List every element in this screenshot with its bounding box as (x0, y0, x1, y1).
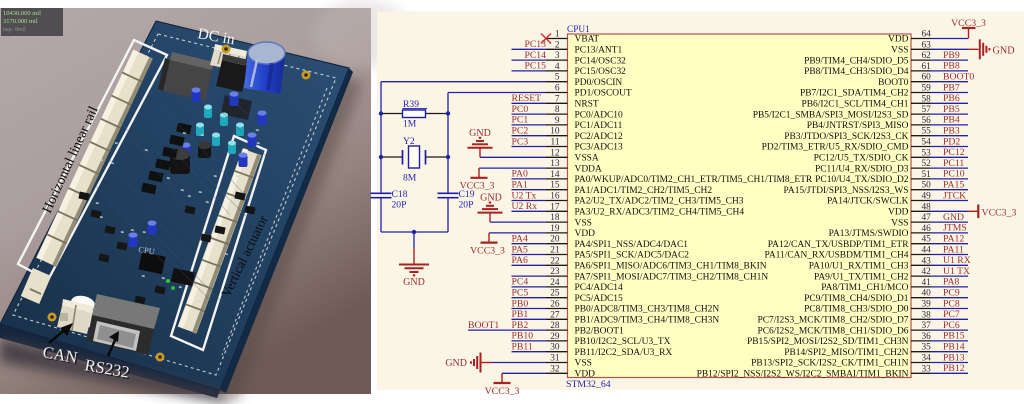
svg-text:16: 16 (550, 192, 560, 202)
svg-text:PA8: PA8 (943, 277, 959, 288)
pin 23 PA7/SPI1_MOSI/ADC7/TIM3_CH2/TIM8_CH1N (left) (546, 267, 768, 282)
power VCC3_3 (VDDA pin13) (460, 168, 495, 192)
right terminal block strip (187, 152, 252, 330)
pin 4 PC15/OSC32 (left) (546, 62, 626, 77)
svg-text:BOOT1: BOOT1 (468, 320, 499, 331)
svg-text:20: 20 (550, 235, 560, 245)
svg-text:PC7/I2S3_MCK/TIM8_CH2/SDIO_D7: PC7/I2S3_MCK/TIM8_CH2/SDIO_D7 (757, 316, 908, 326)
svg-text:PB8/TIM4_CH3/SDIO_D4: PB8/TIM4_CH3/SDIO_D4 (804, 67, 909, 77)
svg-text:U1 TX: U1 TX (943, 266, 970, 277)
crystal Y2 (381, 146, 448, 168)
svg-text:45: 45 (922, 235, 932, 245)
svg-text:PB4: PB4 (943, 115, 960, 126)
wire pin12 VSSA (480, 156, 546, 158)
svg-text:57: 57 (922, 105, 932, 115)
pointer arrows (49, 323, 73, 343)
svg-text:STM32_64: STM32_64 (566, 379, 611, 390)
pin 7 NRST (left) (546, 94, 599, 109)
wire pin 43 (931, 264, 969, 266)
svg-text:PB9/TIM4_CH4/SDIO_D5: PB9/TIM4_CH4/SDIO_D5 (804, 56, 909, 66)
pin 36 PB15/SPI2_MOSI/I2S2_SD/TIM1_CH3N (right) (747, 332, 931, 347)
svg-text:3: 3 (555, 51, 560, 61)
wire net BOOT1 (468, 329, 546, 331)
wire net PC1 (512, 124, 547, 126)
pin 6 PD1/OSCOUT (left) (546, 84, 632, 99)
svg-text:PA8/TIM1_CH1/MCO: PA8/TIM1_CH1/MCO (821, 283, 908, 293)
left connector frame (silkscreen) (18, 40, 167, 280)
wire pin 47 (931, 221, 969, 223)
svg-text:PD2: PD2 (943, 136, 960, 147)
pin 20 PA4/SPI1_NSS/ADC4/DAC1 (left) (546, 235, 688, 250)
svg-text:PA3/U2_RX/ADC3/TIM2_CH4/TIM5_C: PA3/U2_RX/ADC3/TIM2_CH4/TIM5_CH4 (575, 208, 745, 218)
svg-text:44: 44 (922, 246, 932, 256)
svg-text:PA12/CAN_TX/USBDP/TIM1_ETR: PA12/CAN_TX/USBDP/TIM1_ETR (768, 240, 909, 250)
svg-text:58: 58 (922, 94, 932, 104)
svg-text:VSS: VSS (575, 218, 592, 228)
board under-shadow (0, 338, 232, 404)
wire pin 60 (931, 81, 969, 83)
svg-text:33: 33 (922, 364, 932, 374)
wire pin6 OSCOUT to crystal (448, 92, 546, 94)
svg-text:37: 37 (922, 321, 932, 331)
ground (VSS pin31, sideways) (445, 353, 492, 373)
svg-text:PB2/BOOT1: PB2/BOOT1 (575, 326, 625, 336)
wire net PC2 (512, 135, 547, 137)
svg-text:PB1/ADC9/TIM3_CH4/TIM8_CH3N: PB1/ADC9/TIM3_CH4/TIM8_CH3N (575, 316, 720, 326)
wire pin 23 (unlabeled) (512, 275, 547, 277)
svg-text:PC0/ADC10: PC0/ADC10 (575, 110, 624, 120)
wire pin 38 (931, 318, 969, 320)
wire pin 57 (931, 113, 969, 115)
junction node (381,113.5) (379, 111, 383, 115)
pin 24 PC4/ADC14 (left) (546, 278, 623, 293)
junction node (448,113.5) (446, 111, 450, 115)
pcb traces texture (120, 120, 200, 230)
svg-text:PD0/OSCIN: PD0/OSCIN (575, 78, 623, 88)
svg-text:PA9/U1_TX/TIM1_CH2: PA9/U1_TX/TIM1_CH2 (814, 272, 909, 282)
svg-text:PB14: PB14 (943, 342, 965, 353)
svg-text:PD2/TIM3_ETR/U5_RX/SDIO_CMD: PD2/TIM3_ETR/U5_RX/SDIO_CMD (762, 143, 909, 153)
wire pin 34 (931, 362, 969, 364)
pin 33 PB12/SPI2_NSS/I2S2_WS/I2C2_SMBAI/TIM1_BKIN (right) (697, 364, 932, 379)
svg-text:29: 29 (550, 332, 560, 342)
svg-text:10: 10 (550, 127, 560, 137)
svg-text:VDD: VDD (575, 370, 596, 380)
wire pin31 VSS (492, 362, 546, 364)
power transformer block (158, 52, 214, 101)
junction node (448,157) (446, 155, 450, 159)
wire net PA6 (512, 264, 547, 266)
wire pin19 VDD (489, 232, 546, 234)
wire net PC15 (512, 70, 547, 72)
svg-text:BOOT0: BOOT0 (943, 72, 974, 83)
small blue capacitors (192, 87, 201, 102)
svg-text:PA5: PA5 (512, 244, 528, 255)
svg-text:GND: GND (403, 277, 425, 288)
pin 15 PA1/ADC1/TIM2_CH2/TIM5_CH2 (left) (546, 181, 712, 196)
pin 2 PC13/ANT1 (left) (546, 40, 622, 55)
svg-text:PC3/ADC13: PC3/ADC13 (575, 143, 624, 153)
pin 32 VDD (left) (546, 364, 595, 379)
svg-text:VDD: VDD (888, 35, 909, 45)
pin 17 PA3/U2_RX/ADC3/TIM2_CH4/TIM5_CH4 (left) (546, 202, 744, 217)
op-amp U CPU1 body (STM32_64 part body) (568, 34, 912, 378)
ground (VSS pin18) (478, 193, 503, 223)
svg-text:PA4: PA4 (512, 234, 528, 245)
svg-text:32: 32 (550, 364, 560, 374)
svg-text:PA5/SPI1_SCK/ADC5/DAC2: PA5/SPI1_SCK/ADC5/DAC2 (575, 251, 690, 261)
wire left rail lower (380, 198, 382, 232)
svg-text:50: 50 (922, 181, 932, 191)
svg-text:13: 13 (550, 159, 560, 169)
svg-text:PB15: PB15 (943, 331, 965, 342)
pin 31 VSS (left) (546, 354, 592, 369)
wire pin32 VDD (502, 372, 546, 374)
svg-text:PC6/I2S2_MCK/TIM8_CH1/SDIO_D6: PC6/I2S2_MCK/TIM8_CH1/SDIO_D6 (757, 326, 908, 336)
svg-text:VDDA: VDDA (575, 164, 602, 174)
pin 62 PB9/TIM4_CH4/SDIO_D5 (right) (804, 51, 931, 66)
pin 51 PC10/U4_TX/SDIO_D2 (right) (815, 170, 931, 185)
pin 55 PB3/JTDO/SPI3_SCK/I2S3_CK (right) (784, 127, 931, 142)
pin 40 PC9/TIM8_CH4/SDIO_D1 (right) (804, 289, 931, 304)
wire pin 48 (931, 210, 969, 212)
pin 42 PA9/U1_TX/TIM1_CH2 (right) (814, 267, 931, 282)
wire pin 37 (931, 329, 969, 331)
svg-text:PC0: PC0 (512, 104, 529, 115)
svg-text:VSS: VSS (575, 359, 592, 369)
svg-text:PC14/OSC32: PC14/OSC32 (575, 56, 627, 66)
small parts (90, 210, 101, 219)
svg-text:GND: GND (993, 46, 1015, 57)
wire net PA0 (512, 178, 547, 180)
svg-text:PC1/ADC11: PC1/ADC11 (575, 121, 623, 131)
svg-text:PB12/SPI2_NSS/I2S2_WS/I2C2_SMB: PB12/SPI2_NSS/I2S2_WS/I2C2_SMBAI/TIM1_BK… (697, 370, 909, 380)
pin 13 VDDA (left) (546, 159, 602, 174)
svg-text:9: 9 (555, 116, 560, 126)
wire pin 61 (931, 70, 969, 72)
power VCC3_3 (VDD pin64) (951, 18, 986, 39)
svg-text:10430.000 mil: 10430.000 mil (3, 10, 41, 17)
svg-text:64: 64 (922, 30, 932, 40)
left terminal block strip (46, 54, 143, 262)
svg-text:54: 54 (922, 138, 932, 148)
pin 30 PB11/I2C2_SDA/U3_RX (left) (546, 343, 672, 358)
svg-text:52: 52 (922, 159, 932, 169)
svg-text:PA12: PA12 (943, 234, 964, 245)
svg-text:GND: GND (943, 212, 964, 223)
wire pin5 OSCIN to crystal (381, 81, 546, 83)
pin 64 VDD (right) (888, 30, 931, 45)
pin 21 PA5/SPI1_SCK/ADC5/DAC2 (left) (546, 246, 689, 261)
wire pin 56 (931, 124, 969, 126)
svg-text:PA2/U2_TX/ADC2/TIM2_CH3/TIM5_C: PA2/U2_TX/ADC2/TIM2_CH3/TIM5_CH3 (575, 197, 744, 207)
wire net PA4 (512, 243, 547, 245)
svg-text:PC11/U4_RX/SDIO_D3: PC11/U4_RX/SDIO_D3 (815, 164, 909, 174)
pin 47 VSS (right) (891, 213, 931, 228)
svg-text:nap: 8mil: nap: 8mil (3, 27, 26, 33)
svg-text:47: 47 (922, 213, 932, 223)
wire pin 33 (931, 372, 969, 374)
pin 26 PB0/ADC8/TIM3_CH3/TIM8_CH2N (left) (546, 300, 719, 315)
svg-text:56: 56 (922, 116, 932, 126)
svg-text:60: 60 (922, 73, 932, 83)
wire pin 63 (931, 48, 969, 50)
white barrel cap (68, 294, 97, 329)
power VCC3_3 (VDD pin32) (485, 373, 520, 397)
svg-text:JTCK: JTCK (943, 190, 966, 201)
pin 54 PD2/TIM3_ETR/U5_RX/SDIO_CMD (right) (762, 138, 931, 153)
pin 46 PA13/JTMS/SWDIO (right) (829, 224, 932, 239)
svg-text:PC5/ADC15: PC5/ADC15 (575, 294, 624, 304)
svg-text:35: 35 (922, 343, 932, 353)
svg-text:PB6/I2C1_SCL/TIM4_CH1: PB6/I2C1_SCL/TIM4_CH1 (802, 100, 909, 110)
dashed silkscreen outline (13, 34, 336, 375)
svg-text:PB0/ADC8/TIM3_CH3/TIM8_CH2N: PB0/ADC8/TIM3_CH3/TIM8_CH2N (575, 305, 720, 315)
svg-text:19: 19 (550, 224, 560, 234)
wire left rail (380, 82, 382, 194)
ground (VSSA pin12) (468, 128, 493, 158)
pin 44 PA11/CAN_RX/USBDM/TIM1_CH4 (right) (764, 246, 931, 261)
svg-text:PC13/ANT1: PC13/ANT1 (575, 46, 623, 56)
pin 43 PA10/U1_RX/TIM1_CH3 (right) (809, 256, 931, 271)
designator R39 (403, 99, 428, 110)
svg-text:7: 7 (555, 94, 560, 104)
svg-text:PC13: PC13 (524, 39, 546, 50)
svg-text:2: 2 (555, 40, 560, 50)
svg-text:PB9: PB9 (943, 50, 960, 61)
power VCC3_3 (VDD pin19) (470, 233, 505, 257)
pin 49 PA14/JTCK/SWCLK (right) (827, 192, 931, 207)
svg-text:PC3: PC3 (512, 136, 529, 147)
svg-text:PB3: PB3 (943, 126, 960, 137)
black cylinder cap (170, 148, 190, 174)
svg-text:40: 40 (922, 289, 932, 299)
wire pin18 VSS (490, 221, 546, 223)
wire pin 46 (931, 232, 969, 234)
pin 35 PB14/SPI2_MISO/TIM1_CH2N (right) (784, 343, 931, 358)
svg-text:PB11: PB11 (512, 342, 533, 353)
svg-text:26: 26 (550, 300, 560, 310)
svg-text:17: 17 (550, 202, 560, 212)
pin 29 PB10/I2C2_SCL/U3_TX (left) (546, 332, 671, 347)
right connector frame (silkscreen) (171, 136, 266, 350)
wire pin 45 (931, 243, 969, 245)
svg-text:PC9: PC9 (943, 288, 960, 299)
capacitor C19 (438, 193, 459, 197)
svg-text:PB12: PB12 (943, 363, 965, 374)
pin 63 VSS (right) (891, 40, 931, 55)
svg-text:PC8: PC8 (943, 298, 960, 309)
svg-text:U2 Tx: U2 Tx (512, 190, 537, 201)
svg-text:PC10/U4_TX/SDIO_D2: PC10/U4_TX/SDIO_D2 (815, 175, 909, 185)
big electrolytic capacitor (244, 42, 285, 94)
svg-text:34: 34 (922, 354, 932, 364)
svg-text:22: 22 (550, 256, 560, 266)
svg-text:PC11: PC11 (943, 158, 964, 169)
svg-text:PA11/CAN_RX/USBDM/TIM1_CH4: PA11/CAN_RX/USBDM/TIM1_CH4 (764, 251, 908, 261)
pin 22 PA6/SPI1_MISO/ADC6/TIM3_CH1/TIM8_BKIN (left) (546, 256, 767, 271)
pin 39 PC8/TIM8_CH3/SDIO_D0 (right) (804, 300, 931, 315)
wire pin 44 (931, 254, 969, 256)
pin 48 VDD (right) (888, 202, 931, 217)
relay blocks (216, 54, 249, 92)
svg-text:PA15/JTDI/SPI3_NSS/I2S3_WS: PA15/JTDI/SPI3_NSS/I2S3_WS (784, 186, 909, 196)
svg-text:PA6: PA6 (512, 255, 528, 266)
svg-text:3170.000 mil: 3170.000 mil (3, 18, 38, 25)
svg-text:VDD: VDD (575, 229, 596, 239)
pin 59 PB7/I2C1_SDA/TIM4_CH2 (right) (800, 84, 931, 99)
power VCC3_3 (VDD pin48) (968, 205, 1016, 219)
svg-text:PC5: PC5 (512, 288, 529, 299)
svg-text:PA0/WKUP/ADC0/TIM2_CH1_ETR/TIM: PA0/WKUP/ADC0/TIM2_CH1_ETR/TIM5_CH1/TIM8… (575, 175, 813, 185)
svg-text:U1 RX: U1 RX (943, 255, 971, 266)
junction node (414,232) (412, 230, 416, 234)
svg-text:8: 8 (555, 105, 560, 115)
svg-text:61: 61 (922, 62, 932, 72)
pin 27 PB1/ADC9/TIM3_CH4/TIM8_CH3N (left) (546, 310, 719, 325)
svg-text:PC12/U5_TX/SDIO_CK: PC12/U5_TX/SDIO_CK (814, 154, 909, 164)
wire net PB0 (512, 308, 547, 310)
small white connector top (210, 44, 247, 72)
svg-text:PC4/ADC14: PC4/ADC14 (575, 283, 624, 293)
junction node (381,157) (379, 155, 383, 159)
svg-text:38: 38 (922, 310, 932, 320)
photo background (0, 8, 371, 394)
svg-text:PA15: PA15 (943, 180, 964, 191)
wire pin 64 (931, 38, 969, 40)
svg-text:PC10: PC10 (943, 169, 965, 180)
wire pin 52 (931, 167, 969, 169)
svg-text:VCC3_3: VCC3_3 (470, 245, 505, 256)
svg-text:25: 25 (550, 289, 560, 299)
svg-text:PD1/OSCOUT: PD1/OSCOUT (575, 89, 632, 99)
svg-text:5: 5 (555, 73, 560, 83)
svg-text:20P: 20P (459, 200, 474, 211)
pin 8 PC0/ADC10 (left) (546, 105, 623, 120)
wire net PA1 (512, 189, 547, 191)
svg-text:PC14: PC14 (524, 50, 546, 61)
svg-text:41: 41 (922, 278, 932, 288)
svg-text:55: 55 (922, 127, 932, 137)
svg-text:PA13/JTMS/SWDIO: PA13/JTMS/SWDIO (829, 229, 909, 239)
wire net PC5 (512, 297, 547, 299)
svg-text:BOOT0: BOOT0 (878, 78, 909, 88)
svg-text:PA1/ADC1/TIM2_CH2/TIM5_CH2: PA1/ADC1/TIM2_CH2/TIM5_CH2 (575, 186, 713, 196)
svg-text:PB7/I2C1_SDA/TIM4_CH2: PB7/I2C1_SDA/TIM4_CH2 (800, 89, 909, 99)
svg-text:VDD: VDD (888, 208, 909, 218)
svg-text:62: 62 (922, 51, 932, 61)
svg-text:6: 6 (555, 84, 560, 94)
svg-text:63: 63 (922, 40, 932, 50)
pin 9 PC1/ADC11 (left) (546, 116, 623, 131)
svg-text:43: 43 (922, 256, 932, 266)
svg-text:1M: 1M (403, 119, 417, 130)
svg-text:GND: GND (480, 193, 502, 204)
wire net PC3 (512, 146, 547, 148)
pin 50 PA15/JTDI/SPI3_NSS/I2S3_WS (right) (784, 181, 932, 196)
pin 1 VBAT (left) (546, 30, 599, 45)
wire net PA5 (512, 254, 547, 256)
wire pin 58 (931, 102, 969, 104)
wire pin 35 (931, 351, 969, 353)
svg-text:PB8: PB8 (943, 61, 960, 72)
svg-text:RESET: RESET (512, 93, 542, 104)
svg-text:21: 21 (550, 246, 560, 256)
wire net PC14 (512, 59, 547, 61)
svg-text:27: 27 (550, 310, 560, 320)
svg-text:PB10: PB10 (512, 331, 534, 342)
wire net U2 Rx (512, 210, 547, 212)
pin 16 PA2/U2_TX/ADC2/TIM2_CH3/TIM5_CH3 (left) (546, 192, 744, 207)
svg-text:PB14/SPI2_MISO/TIM1_CH2N: PB14/SPI2_MISO/TIM1_CH2N (784, 348, 908, 358)
svg-text:PA0: PA0 (512, 169, 528, 180)
svg-text:20P: 20P (392, 200, 407, 211)
pin 61 PB8/TIM4_CH3/SDIO_D4 (right) (804, 62, 931, 77)
wire pin 55 (931, 135, 969, 137)
svg-text:GND: GND (445, 358, 467, 369)
pin 56 PB4/JNTRST/SPI3_MISO (right) (807, 116, 931, 131)
wire net U2 Tx (512, 200, 547, 202)
wire net PB1 (512, 318, 547, 320)
DB9 RS232 connector (87, 294, 160, 355)
wire pin 54 (931, 146, 969, 148)
pin 14 PA0/WKUP/ADC0/TIM2_CH1_ETR/TIM5_CH1/TIM8_ETR (left) (546, 170, 813, 185)
wire net PC0 (512, 113, 547, 115)
svg-text:PB2: PB2 (512, 320, 529, 331)
svg-text:PB3/JTDO/SPI3_SCK/I2S3_CK: PB3/JTDO/SPI3_SCK/I2S3_CK (784, 132, 908, 142)
svg-text:NRST: NRST (575, 100, 599, 110)
svg-text:PA7/SPI1_MOSI/ADC7/TIM3_CH2/TI: PA7/SPI1_MOSI/ADC7/TIM3_CH2/TIM8_CH1N (575, 272, 769, 282)
wire pin 50 (931, 189, 969, 191)
svg-text:PB4/JNTRST/SPI3_MISO: PB4/JNTRST/SPI3_MISO (807, 121, 909, 131)
svg-text:23: 23 (550, 267, 560, 277)
wire pin 49 (931, 200, 969, 202)
pin 41 PA8/TIM1_CH1/MCO (right) (821, 278, 931, 293)
pin 45 PA12/CAN_TX/USBDP/TIM1_ETR (right) (768, 235, 931, 250)
svg-text:VCC3_3: VCC3_3 (485, 386, 520, 397)
wire net PC4 (512, 286, 547, 288)
pin 19 VDD (left) (546, 224, 595, 239)
svg-text:PB5: PB5 (943, 104, 960, 115)
svg-text:4: 4 (555, 62, 560, 72)
svg-text:PC6: PC6 (943, 320, 960, 331)
svg-text:51: 51 (922, 170, 932, 180)
svg-text:PC8/TIM8_CH3/SDIO_D0: PC8/TIM8_CH3/SDIO_D0 (804, 305, 909, 315)
ground (VSS pin63, sideways) (968, 39, 1015, 59)
PCB board (0, 21, 349, 390)
wire pin 40 (931, 297, 969, 299)
svg-text:PA1: PA1 (512, 180, 528, 191)
pin 10 PC2/ADC12 (left) (546, 127, 623, 142)
no-connect X marker on pin 1 (541, 34, 551, 44)
svg-text:24: 24 (550, 278, 560, 288)
svg-text:PC9/TIM8_CH4/SDIO_D1: PC9/TIM8_CH4/SDIO_D1 (804, 294, 909, 304)
svg-text:PA14/JTCK/SWCLK: PA14/JTCK/SWCLK (827, 197, 909, 207)
pin 58 PB6/I2C1_SCL/TIM4_CH1 (right) (802, 94, 932, 109)
svg-text:PA11: PA11 (943, 244, 964, 255)
board shadow (10, 34, 363, 400)
svg-text:VSSA: VSSA (575, 154, 599, 164)
wire net RESET (512, 102, 547, 104)
svg-text:JTMS: JTMS (943, 223, 967, 234)
svg-text:31: 31 (550, 354, 560, 364)
wire pin 62 (931, 59, 969, 61)
resistor R39 (381, 110, 448, 118)
svg-text:PB13: PB13 (943, 352, 965, 363)
board side (thickness) (0, 324, 220, 398)
schematic sheet background (377, 12, 1024, 391)
svg-text:39: 39 (922, 300, 932, 310)
